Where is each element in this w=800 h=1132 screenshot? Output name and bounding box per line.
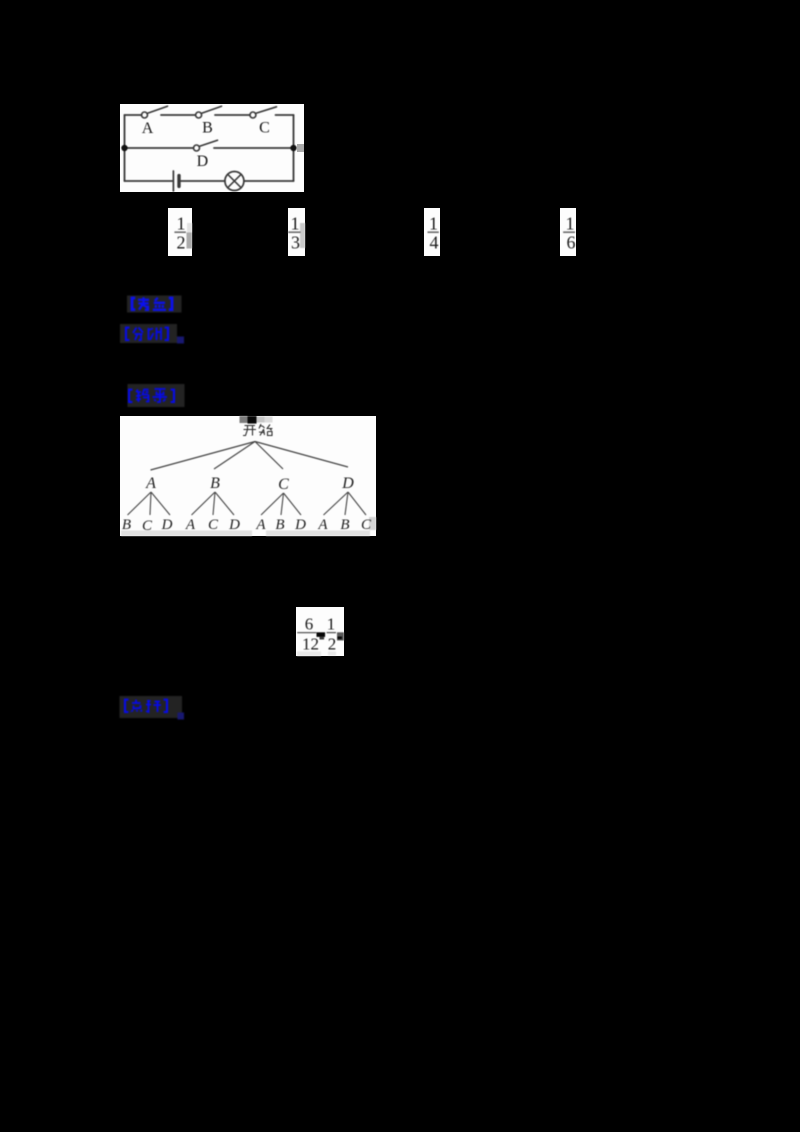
svg-text:1: 1 (177, 213, 186, 233)
wire top right segment (276, 114, 294, 116)
period artifact (178, 713, 185, 720)
fan under A (128, 492, 171, 515)
fan under B (192, 492, 235, 515)
wire bottom left segment (125, 180, 173, 182)
equals artifact blob (317, 632, 326, 637)
label kaishi (start) (243, 424, 273, 436)
svg-text:D: D (197, 153, 209, 170)
lamp (225, 172, 244, 191)
fan under D (324, 492, 367, 515)
svg-text:B: B (340, 517, 349, 533)
artifact blocks top (240, 416, 273, 424)
leaves of D (317, 517, 372, 533)
fraction option 1/3 white box (288, 208, 305, 256)
node left junction (121, 145, 127, 151)
bottom artifacts (297, 652, 321, 657)
switch D (194, 140, 218, 151)
fraction option 1/2 white box (168, 208, 192, 256)
svg-text:B: B (275, 517, 284, 533)
svg-text:A: A (145, 475, 156, 492)
svg-text:D: D (228, 517, 240, 533)
blue label kaodian (127, 295, 183, 313)
tree root fan (151, 442, 349, 471)
wire top segment to switch A (125, 114, 142, 116)
gray artifact right (337, 632, 344, 640)
node right junction (290, 145, 296, 151)
wire left vertical (124, 115, 126, 181)
svg-text:B: B (210, 475, 220, 492)
svg-text:3: 3 (291, 232, 300, 252)
svg-text:1: 1 (566, 213, 575, 233)
fan under C (261, 493, 301, 515)
svg-text:A: A (317, 517, 328, 533)
svg-text:6: 6 (567, 232, 576, 252)
switch A (142, 106, 168, 118)
svg-text:2: 2 (328, 635, 337, 654)
svg-text:B: B (122, 517, 131, 533)
svg-text:D: D (341, 475, 354, 492)
circuit image white box (120, 104, 304, 192)
svg-text:12: 12 (302, 635, 319, 654)
svg-text:4: 4 (430, 232, 439, 252)
svg-text:1: 1 (327, 615, 336, 634)
leaves of B (185, 517, 240, 533)
wire battery to lamp (181, 180, 225, 182)
blue label jieda (127, 384, 185, 408)
svg-text:C: C (259, 120, 270, 137)
svg-text:D: D (294, 517, 306, 533)
svg-text:6: 6 (305, 615, 314, 634)
svg-text:A: A (255, 517, 266, 533)
selection handle artifact (297, 144, 305, 152)
leaves of C (255, 517, 306, 533)
wire right vertical (293, 115, 295, 181)
tree diagram white box (120, 416, 376, 536)
wire between B and C (215, 114, 250, 116)
wire between A and B (161, 114, 196, 116)
fraction 6/12 = 1/2 white box (296, 607, 344, 656)
wire middle left segment (125, 147, 194, 149)
svg-text:A: A (142, 120, 154, 137)
leaves of A (122, 517, 173, 534)
svg-text:1: 1 (429, 213, 438, 233)
period artifact (177, 337, 184, 344)
blue label fenxi (120, 324, 186, 345)
fraction option 1/4 white box (424, 208, 440, 256)
svg-text:1: 1 (291, 213, 300, 233)
gray artifact strip bottom (121, 531, 252, 537)
svg-text:D: D (161, 517, 173, 533)
svg-text:B: B (202, 120, 213, 137)
switch B (196, 106, 222, 118)
switch C (250, 107, 277, 118)
svg-text:2: 2 (177, 232, 186, 252)
svg-text:A: A (185, 517, 196, 533)
svg-text:C: C (361, 517, 372, 533)
wire lamp to right (244, 180, 294, 182)
battery (173, 171, 179, 191)
svg-text:C: C (278, 476, 289, 493)
blue label dianping (119, 696, 185, 720)
svg-text:C: C (208, 517, 219, 533)
fraction option 1/6 white box (560, 208, 576, 256)
wire middle right segment (214, 147, 294, 149)
svg-text:C: C (142, 518, 153, 534)
